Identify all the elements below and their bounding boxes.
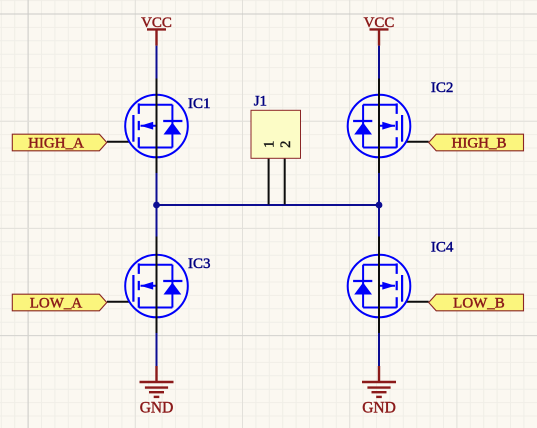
node A (bridge left junction) <box>153 202 160 209</box>
ground GND left <box>140 366 174 397</box>
svg-text:1: 1 <box>262 141 278 148</box>
transistor IC3 <box>125 255 188 318</box>
wire IC4 source to GND right <box>378 333 380 366</box>
port HIGH_A <box>12 134 107 151</box>
wire IC3 source to GND left <box>156 333 158 366</box>
svg-text:J1: J1 <box>254 94 267 110</box>
svg-text:IC1: IC1 <box>188 96 211 112</box>
wire VCC right to IC2 drain <box>378 46 380 79</box>
svg-text:IC4: IC4 <box>431 240 454 256</box>
pin IC2 drain-source vertical <box>378 79 380 174</box>
port HIGH_B <box>429 134 524 151</box>
wire IC2 source to node B <box>378 173 380 237</box>
wire bridge center horizontal <box>157 204 380 206</box>
transistor IC1 <box>125 95 188 158</box>
transistor IC2 <box>348 95 411 158</box>
port LOW_B <box>429 294 524 311</box>
pin IC4 gate <box>402 301 428 303</box>
pin IC1 drain-source vertical <box>156 79 158 174</box>
svg-text:LOW_B: LOW_B <box>453 295 505 311</box>
svg-text:GND: GND <box>140 400 174 417</box>
svg-text:VCC: VCC <box>364 15 395 31</box>
svg-text:VCC: VCC <box>141 15 172 31</box>
node B (bridge right junction) <box>376 202 383 209</box>
pin IC3 gate <box>107 301 133 303</box>
connector J1 <box>251 110 301 158</box>
svg-text:HIGH_B: HIGH_B <box>452 135 507 151</box>
svg-text:LOW_A: LOW_A <box>30 295 83 311</box>
transistor IC4 <box>348 255 411 318</box>
port LOW_A <box>12 294 107 311</box>
ground GND right <box>362 366 396 397</box>
power VCC right <box>370 29 389 45</box>
wire VCC left to IC1 drain <box>156 46 158 79</box>
pin J1-1 <box>268 158 270 204</box>
svg-text:2: 2 <box>278 141 294 148</box>
pin IC3 drain-source vertical <box>156 237 158 334</box>
pin IC1 gate <box>107 141 133 143</box>
pin J1-2 <box>284 158 286 204</box>
pin IC4 drain-source vertical <box>378 237 380 334</box>
svg-text:HIGH_A: HIGH_A <box>28 135 84 151</box>
svg-text:GND: GND <box>362 400 396 417</box>
wire IC1 source to node A <box>156 173 158 237</box>
pin IC2 gate <box>402 141 428 143</box>
svg-text:IC2: IC2 <box>431 80 454 96</box>
power VCC left <box>147 29 166 45</box>
svg-text:IC3: IC3 <box>188 256 211 272</box>
